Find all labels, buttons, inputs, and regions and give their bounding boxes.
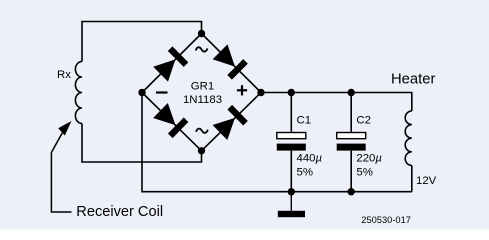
svg-text:C2: C2 xyxy=(356,114,371,126)
wire: negative rail (left vertex down, bottom rail to heater) xyxy=(142,93,412,192)
svg-text:C1: C1 xyxy=(297,114,312,126)
svg-text:Rx: Rx xyxy=(57,69,71,81)
minus sign (DC - terminal) xyxy=(156,91,168,93)
wire: coil top to bridge top (AC) xyxy=(82,22,202,62)
svg-text:Heater: Heater xyxy=(391,71,435,87)
diode D3 (bottom-left arm) xyxy=(153,102,189,138)
svg-text:12V: 12V xyxy=(416,175,437,187)
node: C2 bottom junction xyxy=(348,188,355,195)
inductor: heater element xyxy=(405,111,412,165)
svg-text:1N1183: 1N1183 xyxy=(183,94,222,106)
wire: heater bottom to rail xyxy=(411,165,413,191)
node: bridge bottom junction xyxy=(198,147,205,154)
node: bridge right junction xyxy=(257,89,264,96)
capacitor C2 xyxy=(337,93,366,192)
callout arrow to receiver coil xyxy=(51,121,71,212)
AC symbol ~ (bottom) xyxy=(196,129,208,133)
capacitor C1 xyxy=(277,93,306,192)
ground stub xyxy=(290,192,292,211)
bridge rectifier GR1: diamond outline xyxy=(142,34,261,151)
plus sign (DC + terminal) xyxy=(237,85,247,95)
svg-text:Receiver Coil: Receiver Coil xyxy=(76,204,163,220)
svg-text:GR1: GR1 xyxy=(191,80,214,92)
svg-text:220µ: 220µ xyxy=(356,153,382,165)
AC symbol ~ (top) xyxy=(196,47,208,51)
diode D1 (top-left arm) xyxy=(153,46,189,82)
ground symbol xyxy=(278,211,305,217)
svg-text:5%: 5% xyxy=(356,167,372,179)
node: C1 top junction xyxy=(288,89,295,96)
wire: coil bottom to bridge bottom (AC) xyxy=(82,124,202,163)
node: C1 bottom junction xyxy=(288,188,295,195)
diode D2 (top-right arm) xyxy=(212,44,248,80)
node: bridge left junction xyxy=(138,89,145,96)
wire: positive rail (right vertex to heater top) xyxy=(261,93,412,112)
svg-text:440µ: 440µ xyxy=(297,153,323,165)
svg-text:5%: 5% xyxy=(297,167,313,179)
node: bridge top junction xyxy=(198,30,205,37)
node: C2 top junction xyxy=(348,89,355,96)
diode D4 (bottom-right arm) xyxy=(212,105,248,141)
inductor Rx (receiver coil) xyxy=(75,62,82,124)
svg-text:250530-017: 250530-017 xyxy=(361,215,411,225)
